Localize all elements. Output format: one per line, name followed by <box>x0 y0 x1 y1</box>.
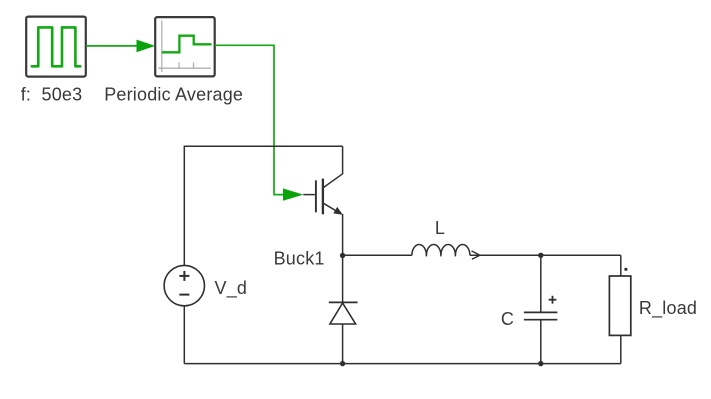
wire diode bottom <box>342 324 344 364</box>
arrow into gate <box>283 188 303 200</box>
capacitor plus polarity mark <box>549 299 557 301</box>
svg-text:L: L <box>435 218 445 238</box>
IGBT Buck1 gate lead <box>303 194 315 196</box>
wire signal pulse to periodic average <box>86 45 138 47</box>
IGBT collector lead <box>324 146 343 187</box>
svg-text:V_d: V_d <box>215 278 248 299</box>
inductor L coil <box>412 245 470 256</box>
wire resistor bottom <box>620 335 622 363</box>
svg-text:R_load: R_load <box>639 298 697 319</box>
wire bottom rail <box>184 363 621 365</box>
periodic average block <box>155 17 215 76</box>
V_d minus sign <box>179 294 189 296</box>
wire left rail lower <box>183 306 185 364</box>
wire resistor top <box>620 255 622 276</box>
svg-text:Periodic Average: Periodic Average <box>104 84 243 104</box>
node junction dot capacitor bottom <box>538 361 543 366</box>
svg-text:f: 50e3: f: 50e3 <box>21 84 83 104</box>
wire mid rail to inductor <box>343 254 412 256</box>
IGBT body bar <box>322 179 324 215</box>
svg-text:Buck1: Buck1 <box>274 248 325 268</box>
IGBT emitter arrowhead <box>333 207 343 215</box>
capacitor plate bottom <box>524 319 558 321</box>
voltage source V_d <box>164 265 204 305</box>
periodic average icon step waveform <box>162 36 212 53</box>
node junction dot diode bottom <box>340 361 345 366</box>
wire diode top <box>342 256 344 303</box>
diode triangle <box>330 303 356 324</box>
wire signal periodic average to IGBT gate <box>215 45 284 194</box>
node junction dot IGBT/diode <box>340 253 345 258</box>
wire capacitor bottom <box>540 320 542 364</box>
node junction dot capacitor top <box>538 253 543 258</box>
pulse generator icon waveform <box>32 27 81 66</box>
capacitor plate top <box>524 311 558 313</box>
resistor polarity dot <box>624 268 627 271</box>
diode cathode bar <box>329 301 358 303</box>
current arrow after inductor <box>472 251 480 259</box>
pulse generator block <box>26 17 86 77</box>
resistor R_load body <box>609 276 630 335</box>
IGBT emitter lead <box>324 203 342 214</box>
wire top rail <box>184 145 342 147</box>
wire left rail upper <box>183 146 185 267</box>
IGBT gate bar <box>315 180 317 212</box>
inductor joint stubs <box>425 253 427 257</box>
periodic average icon axes <box>161 21 163 72</box>
V_d plus sign <box>179 275 189 277</box>
arrow into Periodic Average input <box>137 40 156 53</box>
wire emitter down to node <box>342 214 344 256</box>
wire capacitor top <box>540 255 542 312</box>
wire mid rail inductor to load corner <box>470 254 621 256</box>
svg-text:C: C <box>501 309 514 329</box>
